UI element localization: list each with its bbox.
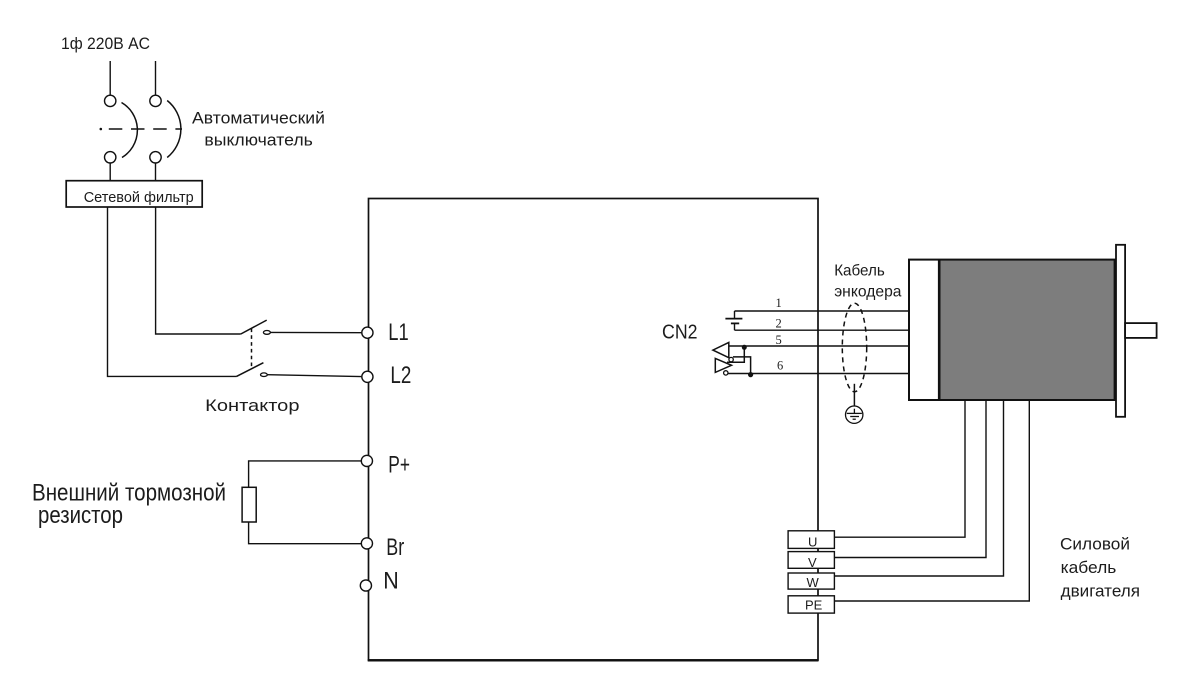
svg-text:6: 6 xyxy=(777,359,783,373)
svg-text:PE: PE xyxy=(805,598,823,613)
inverting bubble of receiver xyxy=(729,357,733,361)
motor body gray section xyxy=(939,260,1115,400)
breaker QF1 terminal circle top-left xyxy=(105,95,116,106)
svg-text:L2: L2 xyxy=(390,362,411,389)
svg-text:P+: P+ xyxy=(388,452,410,479)
svg-text:двигателя: двигателя xyxy=(1061,582,1140,601)
terminal box PE xyxy=(788,596,834,613)
terminal circle P+ xyxy=(361,455,372,466)
terminal circle N xyxy=(360,580,371,591)
terminal circle L2 xyxy=(362,371,373,382)
breaker QF1 mechanical link dash-dot line xyxy=(100,128,183,131)
ground (protective earth in circle) xyxy=(846,406,863,423)
wire: shield to ground xyxy=(853,384,855,406)
breaker QF1 terminal circle bottom-left xyxy=(105,152,116,163)
svg-text:Br: Br xyxy=(386,534,404,561)
motor shaft xyxy=(1125,323,1157,338)
encoder supply symbol between pin1 and pin2 xyxy=(725,311,742,330)
terminal box W xyxy=(788,573,834,590)
wire: supply line N down to breaker xyxy=(155,61,157,95)
motor flange plate xyxy=(1116,245,1125,417)
wire: P+ to braking resistor top xyxy=(249,461,362,487)
servo drive box bottom edge (thicker) xyxy=(368,659,819,661)
svg-text:N: N xyxy=(383,567,399,594)
wire: motor V lead down and left to V terminal xyxy=(835,400,986,558)
label: Автоматический выключатель xyxy=(192,109,325,149)
contactor KM1 lower pole contact oval xyxy=(261,373,268,377)
wire: breaker to filter right xyxy=(155,163,157,181)
contactor KM1 lower pole blade xyxy=(237,363,264,377)
label: Силовой кабель двигателя xyxy=(1060,535,1140,601)
svg-text:W: W xyxy=(807,575,820,590)
breaker QF1 right contact arc xyxy=(167,101,181,158)
motor front/rear divider line xyxy=(938,260,941,400)
terminal circle L1 xyxy=(362,327,373,338)
wire: encoder pin 6 to motor xyxy=(728,373,910,375)
wire: encoder pin 1 to motor xyxy=(735,310,910,312)
svg-text:Сетевой фильтр: Сетевой фильтр xyxy=(84,189,194,206)
bubble on driver output at pin6 xyxy=(724,371,728,375)
motor body outline xyxy=(909,260,1115,400)
breaker QF1 left contact arc xyxy=(122,103,138,158)
junction dot on pin5 wire xyxy=(742,345,747,350)
svg-text:резистор: резистор xyxy=(38,502,123,529)
svg-text:Контактор: Контактор xyxy=(205,397,299,415)
label: Внешний тормозной резистор xyxy=(32,479,226,529)
contactor KM1 upper pole blade xyxy=(241,320,267,334)
svg-text:Силовой: Силовой xyxy=(1060,535,1130,554)
wire: contactor lower pole to L2 terminal xyxy=(267,375,361,377)
line filter box: Сетевой фильтр xyxy=(66,181,202,207)
svg-text:энкодера: энкодера xyxy=(834,283,901,300)
wire: motor W lead down and left to W terminal xyxy=(835,400,1004,576)
wire: supply line L down to breaker xyxy=(109,61,111,95)
wire: bubble to pin6 junction xyxy=(733,357,751,374)
svg-text:U: U xyxy=(808,534,817,549)
wire: encoder pin 5 to motor xyxy=(729,345,909,347)
servo drive box outline xyxy=(369,199,819,661)
wire: motor U lead down and left to U terminal xyxy=(835,400,965,537)
junction dot on pin6 wire xyxy=(748,372,753,377)
svg-text:2: 2 xyxy=(776,317,782,331)
contactor KM1 mechanical link dashed xyxy=(251,329,253,368)
svg-text:V: V xyxy=(808,555,817,570)
svg-text:L1: L1 xyxy=(388,319,408,346)
terminal box V xyxy=(788,552,834,570)
receiver buffer triangle (points left) xyxy=(713,342,729,357)
wire: encoder pin 2 to motor xyxy=(735,329,910,331)
resistor R1 (external braking resistor) body xyxy=(242,487,256,522)
svg-text:Кабель: Кабель xyxy=(834,262,885,279)
svg-text:5: 5 xyxy=(776,333,782,347)
svg-text:кабель: кабель xyxy=(1061,558,1117,577)
svg-text:1: 1 xyxy=(776,296,782,310)
breaker QF1 terminal circle top-right xyxy=(150,95,161,106)
terminal box U xyxy=(788,531,834,550)
wire: pin5 junction down to lower input xyxy=(727,347,744,362)
label: Кабель энкодера xyxy=(834,262,901,300)
svg-text:CN2: CN2 xyxy=(662,322,698,344)
wire: breaker to filter left xyxy=(109,163,111,181)
wire: motor PE lead down and left to PE terminal xyxy=(835,400,1029,601)
contactor KM1 upper pole contact oval xyxy=(263,331,270,335)
encoder cable shield dashed ellipse xyxy=(842,303,866,392)
svg-text:1ф 220В AC: 1ф 220В AC xyxy=(61,35,150,53)
wire: contactor upper pole to L1 terminal xyxy=(270,331,361,333)
wire: filter out right, down and right to contactor upper pole xyxy=(156,207,241,334)
svg-text:выключатель: выключатель xyxy=(204,131,313,149)
driver buffer triangle (points right) xyxy=(715,358,731,372)
breaker QF1 terminal circle bottom-right xyxy=(150,152,161,163)
wire: braking resistor bottom to Br xyxy=(249,522,362,544)
svg-text:Автоматический: Автоматический xyxy=(192,109,325,127)
terminal circle Br xyxy=(361,538,372,549)
wire: filter out left, down and right to contactor lower pole xyxy=(108,207,237,376)
